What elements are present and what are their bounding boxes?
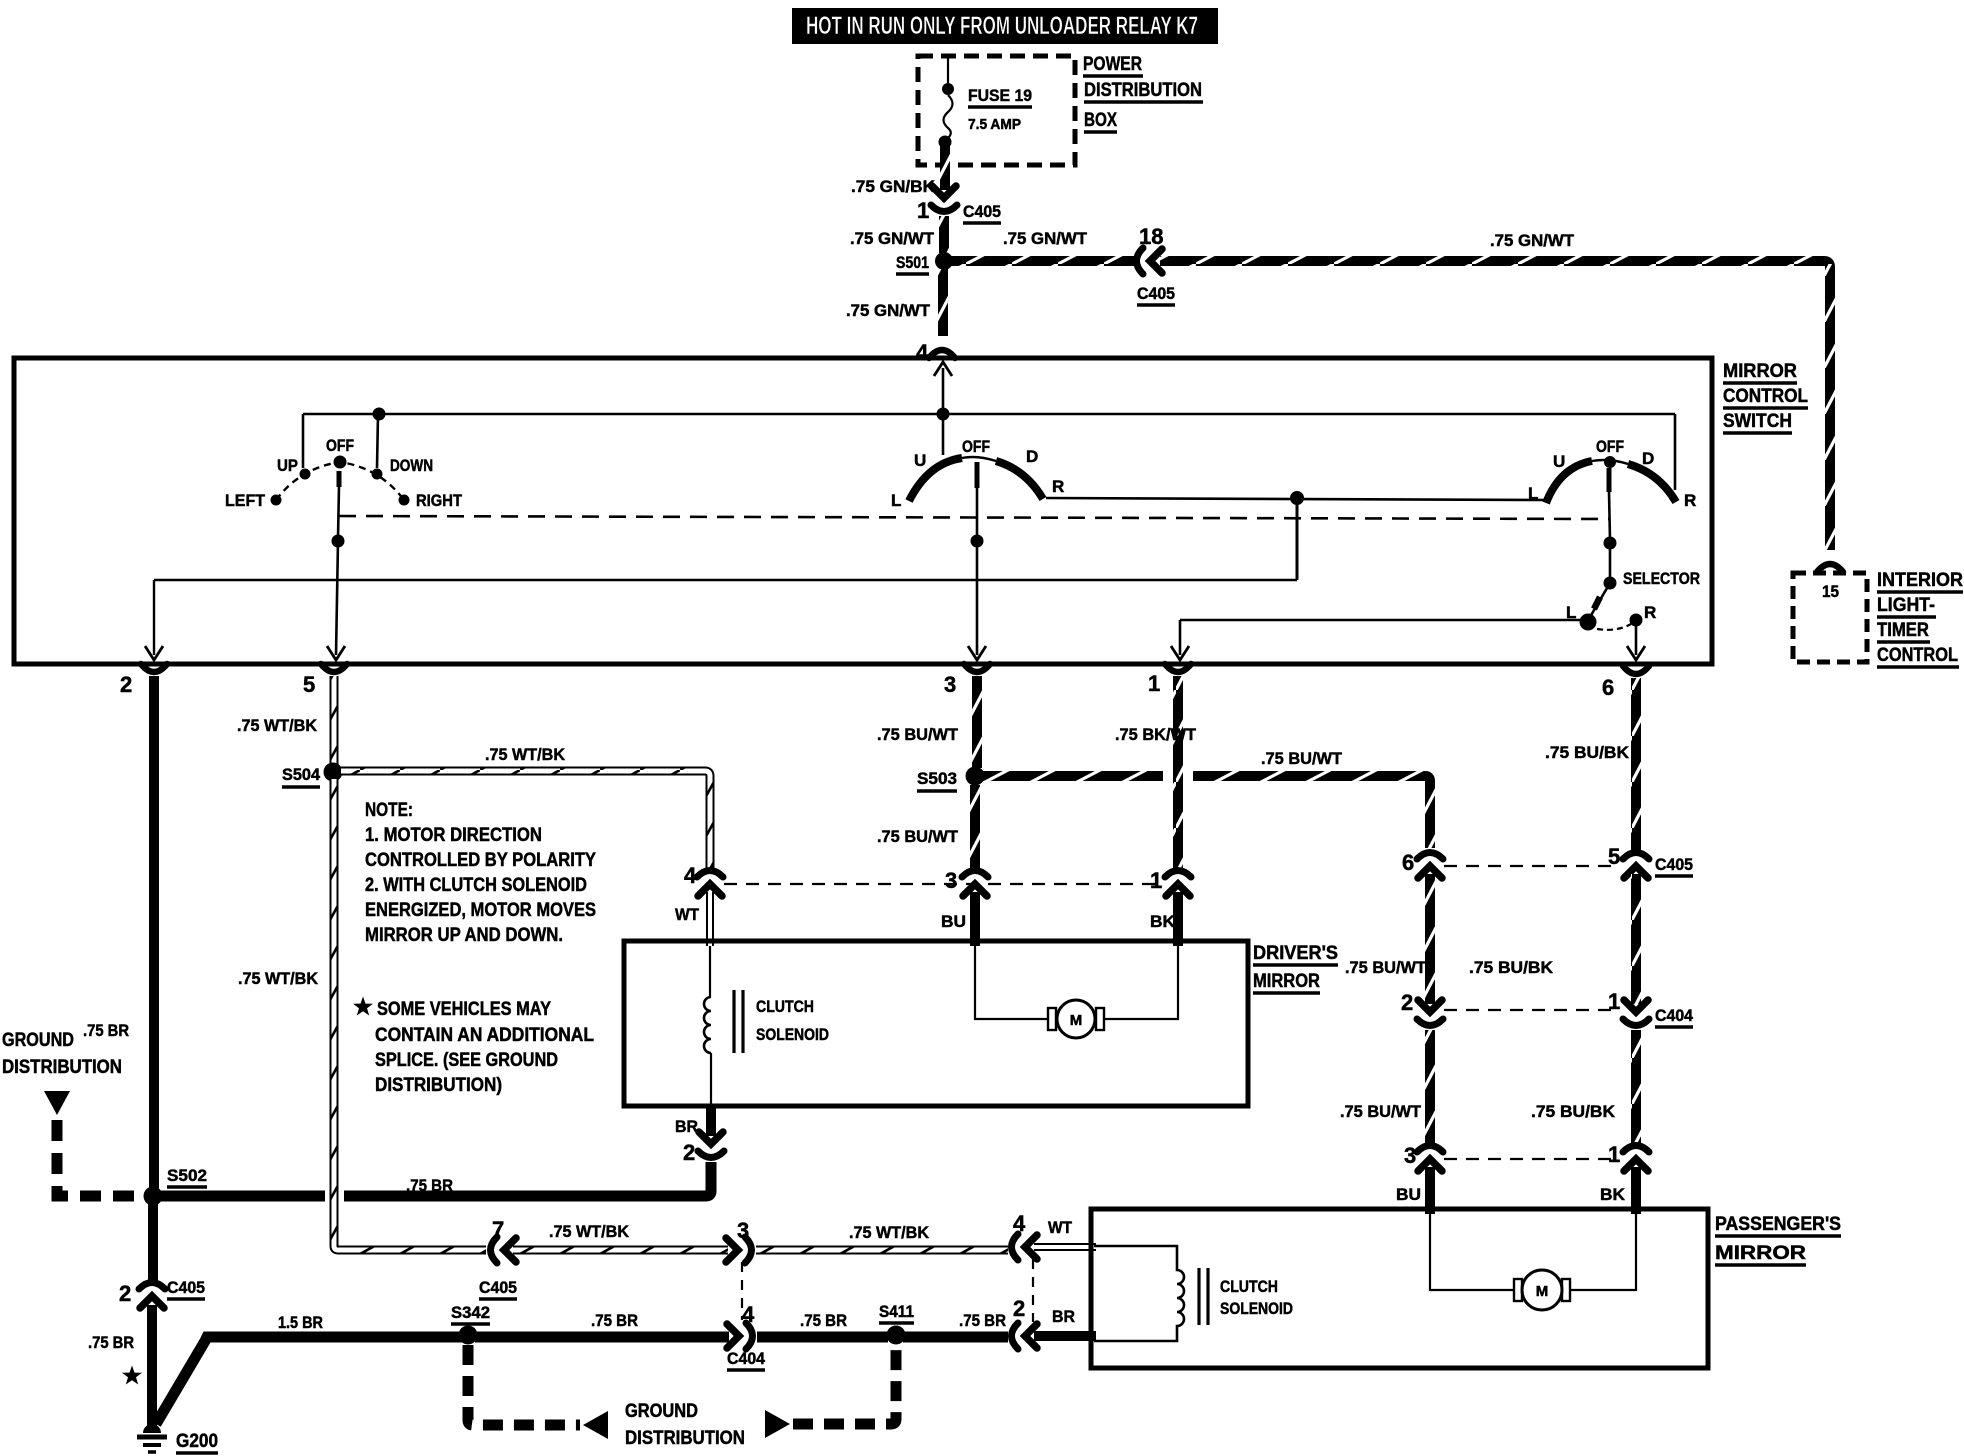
ground G200 bbox=[137, 1424, 167, 1452]
right switch thick arc D-R bbox=[1628, 464, 1676, 502]
svg-text:.75 WT/BK: .75 WT/BK bbox=[237, 716, 318, 735]
wire pin4 internal lead bbox=[942, 368, 945, 414]
svg-text:CONTROL: CONTROL bbox=[1723, 386, 1808, 407]
label POWER DISTRIBUTION BOX bbox=[1083, 54, 1203, 132]
svg-text:C405: C405 bbox=[167, 1278, 205, 1297]
middle switch thick arc L-U-OFF bbox=[909, 458, 962, 501]
svg-text:POWER: POWER bbox=[1083, 54, 1142, 75]
label S342 bbox=[451, 1303, 490, 1324]
wire .75 WT/BK C404-3 to connector 4 (hollow) bbox=[756, 1246, 1008, 1255]
svg-text:DISTRIBUTION: DISTRIBUTION bbox=[625, 1428, 745, 1449]
svg-text:TIMER: TIMER bbox=[1877, 620, 1929, 641]
label C405 bbox=[963, 202, 1001, 223]
wire stem lower bbox=[1609, 543, 1612, 583]
ground distribution arrow (right) bbox=[765, 1410, 790, 1438]
wire BR driver mirror down bbox=[706, 1106, 716, 1136]
svg-text:PASSENGER'S: PASSENGER'S bbox=[1715, 1214, 1841, 1235]
svg-text:CONTROLLED BY POLARITY: CONTROLLED BY POLARITY bbox=[365, 850, 596, 871]
svg-text:BOX: BOX bbox=[1084, 110, 1117, 131]
svg-text:BK: BK bbox=[1150, 912, 1176, 931]
svg-text:CONTROL: CONTROL bbox=[1877, 645, 1958, 666]
splice S503 bbox=[966, 767, 985, 786]
connector C404 pin 1 (arrow down) bbox=[1623, 1000, 1649, 1026]
svg-text:.75 BU/BK: .75 BU/BK bbox=[1531, 1102, 1616, 1121]
svg-text:4: 4 bbox=[916, 340, 929, 365]
ground distribution arrow (down) bbox=[44, 1091, 70, 1115]
wire selector R to pin 6 bbox=[1635, 626, 1638, 655]
arrowhead down at pin 5 bbox=[327, 646, 345, 660]
connector 1 (mirror plug, arrow up) bbox=[1165, 871, 1191, 897]
label S502 bbox=[167, 1166, 207, 1187]
svg-text:SOME VEHICLES MAY: SOME VEHICLES MAY bbox=[377, 999, 551, 1020]
dashed wire S411 to ground distribution bbox=[793, 1345, 896, 1424]
wire internal top bus bbox=[303, 413, 1675, 416]
wire corner down to R contact (right switch) bbox=[1674, 414, 1677, 490]
svg-text:1: 1 bbox=[1608, 989, 1620, 1014]
label GROUND DISTRIBUTION (bottom) bbox=[625, 1401, 745, 1449]
left switch pole stem bbox=[338, 471, 339, 538]
svg-text:6: 6 bbox=[1402, 850, 1414, 875]
svg-text:DISTRIBUTION: DISTRIBUTION bbox=[2, 1057, 122, 1078]
label GROUND DISTRIBUTION (upper left) bbox=[2, 1030, 122, 1078]
svg-text:OFF: OFF bbox=[962, 437, 990, 456]
contact DOWN bbox=[372, 469, 383, 480]
svg-text:OFF: OFF bbox=[326, 436, 354, 455]
svg-text:C405: C405 bbox=[1655, 855, 1693, 874]
pin 3 fork bbox=[964, 664, 990, 672]
svg-text:3: 3 bbox=[945, 868, 957, 893]
svg-text:S342: S342 bbox=[451, 1303, 490, 1322]
svg-text:1: 1 bbox=[917, 198, 929, 223]
node on stem bbox=[332, 535, 345, 548]
wire corner down to UP contact bbox=[302, 414, 305, 468]
svg-text:S503: S503 bbox=[917, 769, 957, 788]
label S411 bbox=[879, 1302, 914, 1323]
star (additional splice mark) bbox=[122, 1366, 142, 1385]
svg-text:BR: BR bbox=[675, 1117, 698, 1136]
connector C404 pin 2 (arrow down) bbox=[1417, 1000, 1443, 1026]
svg-text:S504: S504 bbox=[282, 765, 321, 784]
svg-text:MIRROR: MIRROR bbox=[1715, 1243, 1806, 1264]
svg-text:SELECTOR: SELECTOR bbox=[1623, 569, 1700, 588]
connector C404 pin 3 (arrow right) bbox=[726, 1237, 752, 1263]
wire .75 BR S342 to C404-4 bbox=[475, 1332, 729, 1343]
svg-text:MIRROR UP AND DOWN.: MIRROR UP AND DOWN. bbox=[365, 925, 563, 946]
dashed connector line C404 2-1 bbox=[1444, 1009, 1620, 1011]
wire 1.5 BR to S342 bbox=[460, 1332, 462, 1343]
svg-text:.75 BK/WT: .75 BK/WT bbox=[1115, 725, 1197, 744]
dashed wire ground distribution to S502 bbox=[57, 1120, 144, 1196]
svg-text:UP: UP bbox=[277, 456, 298, 475]
svg-text:U: U bbox=[1553, 452, 1565, 471]
wire WT lead inside driver mirror bbox=[709, 946, 711, 997]
svg-text:LEFT: LEFT bbox=[225, 491, 266, 510]
svg-text:L: L bbox=[1528, 484, 1538, 503]
svg-text:ENERGIZED, MOTOR MOVES: ENERGIZED, MOTOR MOVES bbox=[365, 900, 596, 921]
label C404 bbox=[727, 1349, 766, 1370]
svg-text:5: 5 bbox=[303, 672, 315, 697]
svg-text:.75 BU/WT: .75 BU/WT bbox=[1340, 1102, 1422, 1121]
svg-text:DISTRIBUTION: DISTRIBUTION bbox=[1084, 80, 1202, 101]
svg-text:R: R bbox=[1644, 603, 1656, 622]
pin 4 fork at switch box bbox=[929, 350, 955, 358]
contact OFF (right switch) bbox=[1604, 456, 1616, 468]
svg-text:.75 GN/WT: .75 GN/WT bbox=[846, 301, 931, 320]
svg-text:BR: BR bbox=[1052, 1307, 1075, 1326]
svg-text:SWITCH: SWITCH bbox=[1723, 411, 1792, 432]
svg-text:.75 GN/WT: .75 GN/WT bbox=[850, 229, 935, 248]
label CLUTCH SOLENOID (passenger) bbox=[1220, 1277, 1293, 1318]
svg-text:R: R bbox=[1684, 491, 1696, 510]
wire BK connector to driver mirror bbox=[1173, 892, 1183, 946]
svg-text:MIRROR: MIRROR bbox=[1253, 971, 1320, 992]
middle switch pole stem bbox=[975, 462, 980, 538]
svg-text:FUSE 19: FUSE 19 bbox=[968, 86, 1032, 105]
dashed line connector 4 to 2 bbox=[1032, 1259, 1034, 1322]
connector C405 pin 18 (inline) bbox=[1137, 248, 1163, 274]
wire .75 BU/WT S503 down to connector 3 bbox=[970, 785, 980, 868]
svg-text:CONTAIN AN ADDITIONAL: CONTAIN AN ADDITIONAL bbox=[375, 1025, 594, 1046]
svg-text:.75 BR: .75 BR bbox=[406, 1176, 453, 1195]
contact RIGHT bbox=[399, 495, 410, 506]
wire WT connector to driver mirror (hollow) bbox=[706, 892, 714, 946]
node on stem bbox=[971, 535, 984, 548]
wire .75 BR S502 to C405-2 bbox=[148, 1200, 158, 1280]
connector C405 pin 1 (inline) bbox=[931, 186, 957, 212]
arrowhead down at pin 2 bbox=[145, 646, 163, 660]
connector 2 driver mirror (arrow down) bbox=[698, 1132, 724, 1158]
svg-text:DISTRIBUTION): DISTRIBUTION) bbox=[375, 1075, 502, 1096]
svg-text:3: 3 bbox=[1404, 1143, 1416, 1168]
fuse F19 top node bbox=[942, 83, 954, 95]
contact LEFT bbox=[271, 495, 282, 506]
svg-text:2. WITH CLUTCH SOLENOID: 2. WITH CLUTCH SOLENOID bbox=[365, 875, 587, 896]
label CLUTCH SOLENOID (driver) bbox=[756, 997, 829, 1044]
svg-text:.75 GN/WT: .75 GN/WT bbox=[1003, 229, 1088, 248]
connector 2 passenger mirror (arrow left) bbox=[1012, 1323, 1038, 1349]
svg-text:S502: S502 bbox=[167, 1166, 207, 1185]
svg-text:1. MOTOR DIRECTION: 1. MOTOR DIRECTION bbox=[365, 825, 542, 846]
svg-text:SOLENOID: SOLENOID bbox=[1220, 1299, 1293, 1318]
wire .75 GN/WT S501 to C405-18 (horizontal) bbox=[951, 256, 1134, 266]
svg-text:C404: C404 bbox=[1655, 1006, 1694, 1025]
svg-text:DRIVER'S: DRIVER'S bbox=[1253, 943, 1338, 964]
svg-text:LIGHT-: LIGHT- bbox=[1877, 595, 1935, 616]
connector C405 pin 6 (arrow up) bbox=[1417, 853, 1443, 879]
node selector pivot bbox=[1604, 577, 1617, 590]
splice S504 bbox=[324, 763, 343, 782]
svg-text:WT: WT bbox=[1048, 1218, 1073, 1237]
pin 2 fork bbox=[141, 664, 167, 672]
label C404 bbox=[1655, 1006, 1694, 1027]
wire .75 WT/BK S504 to connector 4 (hollow, right then down) bbox=[341, 771, 710, 868]
svg-text:15: 15 bbox=[1822, 582, 1839, 601]
svg-text:G200: G200 bbox=[176, 1431, 218, 1452]
mirror control switch box bbox=[14, 358, 1712, 664]
label G200 bbox=[176, 1431, 218, 1453]
contact UP bbox=[300, 469, 311, 480]
svg-text:BK: BK bbox=[1600, 1185, 1626, 1204]
splice S411 bbox=[887, 1326, 906, 1345]
connector 3 (mirror plug, arrow up) bbox=[962, 871, 988, 897]
node junction on R-L wire bbox=[1290, 491, 1304, 505]
svg-text:INTERIOR: INTERIOR bbox=[1877, 570, 1963, 591]
svg-text:L: L bbox=[891, 491, 901, 510]
dashed selector arc bbox=[1597, 624, 1631, 630]
middle switch thick arc D-R bbox=[996, 461, 1043, 499]
wire .75 BU/BK C405-5 to C404-1 bbox=[1631, 874, 1641, 1004]
motor circuit wires (passenger) bbox=[1430, 1214, 1520, 1290]
svg-text:2: 2 bbox=[120, 672, 132, 697]
fuse F19 element bbox=[944, 95, 953, 139]
label C405 bbox=[1137, 284, 1175, 305]
wire .75 BU/BK pin 6 down to C405-5 bbox=[1631, 678, 1641, 850]
left switch dashed arc bbox=[276, 462, 404, 500]
svg-text:1: 1 bbox=[1608, 1142, 1620, 1167]
svg-text:C405: C405 bbox=[1137, 284, 1175, 303]
connector C405 pin 5 (arrow up) bbox=[1623, 853, 1649, 879]
wire pin 1 internal lead bbox=[1180, 620, 1588, 655]
pin 5 fork bbox=[321, 664, 347, 672]
svg-text:SOLENOID: SOLENOID bbox=[756, 1025, 829, 1044]
wire down to DOWN contact bbox=[377, 414, 378, 468]
svg-text:D: D bbox=[1642, 449, 1654, 468]
wire .75 WT/BK bottom run (hollow) bbox=[334, 1246, 486, 1250]
svg-text:1: 1 bbox=[1150, 868, 1162, 893]
wire BR connector to S502 run bbox=[344, 1162, 711, 1196]
svg-text:S501: S501 bbox=[896, 253, 929, 272]
svg-text:.75 BU/BK: .75 BU/BK bbox=[1469, 958, 1554, 977]
svg-text:.75 BU/WT: .75 BU/WT bbox=[877, 725, 959, 744]
splice S502 bbox=[144, 1187, 163, 1206]
connector 4 (mirror plug, arrow up) bbox=[697, 871, 723, 897]
power distribution box (dashed) bbox=[918, 56, 1075, 165]
wire BU connector to driver mirror bbox=[970, 892, 980, 946]
svg-text:1: 1 bbox=[1148, 671, 1160, 696]
splice S501 bbox=[935, 252, 953, 270]
ground distribution arrow (left) bbox=[583, 1411, 608, 1439]
wire R contact to right switch L contact bbox=[1046, 498, 1546, 500]
label MIRROR CONTROL SWITCH bbox=[1723, 361, 1808, 433]
svg-text:GROUND: GROUND bbox=[625, 1401, 698, 1422]
dashed line C404 3 to 4 bbox=[741, 1262, 743, 1320]
svg-text:.75 BU/WT: .75 BU/WT bbox=[1261, 749, 1343, 768]
svg-text:.75 BR: .75 BR bbox=[800, 1311, 847, 1330]
svg-text:.75 WT/BK: .75 WT/BK bbox=[849, 1223, 930, 1242]
connector C405 pin 7 (arrow left) bbox=[491, 1237, 517, 1263]
selector arm bbox=[1590, 583, 1610, 617]
dashed connector line C405 6-5 bbox=[1444, 865, 1620, 867]
connector 3 passenger mirror plug (arrow up) bbox=[1417, 1146, 1443, 1172]
wire WT into passenger mirror (hollow) bbox=[1034, 1243, 1096, 1251]
svg-text:7: 7 bbox=[492, 1217, 504, 1242]
svg-text:C405: C405 bbox=[963, 202, 1001, 221]
wire down to U contact bbox=[942, 414, 945, 455]
svg-text:.75 WT/BK: .75 WT/BK bbox=[485, 745, 566, 764]
svg-text:.75 BU/WT: .75 BU/WT bbox=[877, 827, 959, 846]
svg-text:.75 BR: .75 BR bbox=[83, 1021, 129, 1040]
banner HOT IN RUN ONLY FROM UNLOADER RELAY K7 bbox=[792, 8, 1218, 44]
wire .75 GN/WT C405-18 to interior light timer (long run right and down) bbox=[1160, 261, 1830, 550]
svg-text:SPLICE. (SEE GROUND: SPLICE. (SEE GROUND bbox=[375, 1050, 558, 1071]
note text block bbox=[365, 800, 596, 946]
dashed mechanical linkage line bbox=[339, 516, 1609, 519]
svg-text:.75 GN/WT: .75 GN/WT bbox=[1490, 231, 1575, 250]
svg-text:GROUND: GROUND bbox=[2, 1030, 74, 1051]
svg-text:C405: C405 bbox=[479, 1278, 517, 1297]
wire .75 BR S411 to connector 2 bbox=[903, 1332, 1008, 1343]
label S503 bbox=[917, 769, 957, 791]
svg-text:WT: WT bbox=[675, 905, 700, 924]
fuse F19 lead wire bbox=[947, 58, 949, 84]
wire BU into passenger mirror bbox=[1425, 1167, 1435, 1214]
wire 1.5 BR diagonal from G200 junction bbox=[156, 1337, 461, 1424]
svg-text:4: 4 bbox=[684, 863, 697, 888]
node junction above DOWN bbox=[373, 408, 386, 421]
svg-text:.75 BR: .75 BR bbox=[88, 1333, 134, 1352]
svg-text:2: 2 bbox=[1013, 1296, 1025, 1321]
wire BR into passenger mirror bbox=[1034, 1331, 1096, 1341]
pin 6 fork bbox=[1623, 666, 1649, 674]
wire .75 BR C405-2 to G200 bbox=[147, 1305, 157, 1430]
wire .75 WT/BK C405-7 to C404-3 (hollow) bbox=[513, 1246, 728, 1255]
dashed connector line 3-1 bbox=[1444, 1158, 1620, 1160]
svg-text:MIRROR: MIRROR bbox=[1723, 361, 1797, 382]
clutch solenoid frame (passenger) bbox=[1094, 1246, 1184, 1341]
passenger's mirror box bbox=[1091, 1209, 1708, 1368]
svg-text:U: U bbox=[914, 451, 926, 470]
connector 1 passenger mirror plug (arrow up) bbox=[1623, 1146, 1649, 1172]
wire .75 BR C404-4 to S411 bbox=[757, 1332, 888, 1343]
wire stem to pin 3 bbox=[976, 541, 979, 655]
wire .75 BU/BK C404-1 to mirror connector 1 bbox=[1631, 1030, 1641, 1143]
wire .75 GN/WT C405 to S501 bbox=[939, 216, 949, 253]
clutch solenoid coil (driver) bbox=[704, 997, 711, 1053]
arrowhead down at pin 3 bbox=[968, 646, 986, 660]
node on stem bbox=[1604, 537, 1617, 550]
middle switch thin arc at OFF bbox=[962, 457, 996, 461]
svg-text:2: 2 bbox=[683, 1140, 695, 1165]
label PASSENGER'S MIRROR bbox=[1715, 1214, 1841, 1265]
wire coil to BR pin bbox=[710, 1053, 712, 1104]
label S501 bbox=[896, 253, 929, 274]
label C405 bbox=[167, 1278, 205, 1299]
label C405 bbox=[479, 1278, 517, 1299]
svg-text:7.5 AMP: 7.5 AMP bbox=[968, 116, 1021, 133]
wire .75 WT/BK pin 5 down to S504 (hollow) bbox=[330, 676, 339, 766]
wire .75 GN/BK from fuse to C405 bbox=[940, 140, 950, 190]
connector C404 pin 4 (arrow right) bbox=[727, 1323, 753, 1349]
wire .75 BK/WT pin 1 to connector 1 bbox=[1173, 676, 1183, 868]
svg-text:CLUTCH: CLUTCH bbox=[1220, 1277, 1278, 1296]
svg-text:2: 2 bbox=[1401, 990, 1413, 1015]
pin fork at interior light timer bbox=[1817, 564, 1843, 572]
svg-text:4: 4 bbox=[742, 1302, 755, 1327]
svg-text:C404: C404 bbox=[727, 1349, 766, 1368]
wire .75 BR pin 2 down to S502 bbox=[149, 676, 159, 1190]
wire lower bus to pin 2 bbox=[154, 579, 1297, 581]
wire stem to pin 5 bbox=[336, 541, 338, 655]
wire .75 BU/WT S503 horizontal to right column bbox=[983, 776, 1430, 848]
interior light-timer control box (dashed) bbox=[1793, 573, 1867, 662]
splice S342 bbox=[459, 1326, 478, 1345]
contact selector R bbox=[1630, 614, 1643, 627]
svg-text:3: 3 bbox=[737, 1218, 749, 1243]
svg-text:.75 BR: .75 BR bbox=[959, 1311, 1006, 1330]
label S504 bbox=[282, 765, 321, 787]
svg-text:HOT IN RUN ONLY FROM UNLOADER: HOT IN RUN ONLY FROM UNLOADER RELAY K7 bbox=[806, 12, 1198, 40]
svg-text:D: D bbox=[1026, 447, 1038, 466]
right switch thin arc at OFF bbox=[1592, 460, 1628, 464]
wire down to pin 2 bbox=[153, 580, 155, 655]
label DRIVER'S MIRROR bbox=[1253, 943, 1338, 993]
svg-text:.75 BU/WT: .75 BU/WT bbox=[1345, 958, 1427, 977]
wire junction down bbox=[1296, 498, 1299, 580]
connector 4 passenger mirror (arrow left) bbox=[1012, 1234, 1038, 1260]
svg-text:BU: BU bbox=[1396, 1185, 1421, 1204]
svg-text:RIGHT: RIGHT bbox=[416, 491, 463, 510]
motor M (passenger) bbox=[1514, 1270, 1570, 1310]
pin 1 fork bbox=[1165, 664, 1191, 672]
contact selector L bbox=[1580, 614, 1597, 631]
wire .75 BU/WT C405-6 to C404-2 bbox=[1425, 874, 1435, 1004]
svg-text:3: 3 bbox=[944, 672, 956, 697]
right switch pole stem bbox=[1609, 468, 1610, 540]
svg-text:DOWN: DOWN bbox=[390, 456, 433, 475]
right switch thick arc L-U bbox=[1546, 461, 1592, 503]
svg-text:6: 6 bbox=[1602, 675, 1614, 700]
svg-text:M: M bbox=[1070, 1012, 1083, 1029]
node junction above U (middle switch) bbox=[937, 408, 950, 421]
svg-text:.75 BU/BK: .75 BU/BK bbox=[1545, 743, 1630, 762]
svg-text:1.5 BR: 1.5 BR bbox=[278, 1313, 323, 1332]
svg-text:.75 WT/BK: .75 WT/BK bbox=[549, 1222, 630, 1241]
svg-text:OFF: OFF bbox=[1596, 437, 1624, 456]
motor M (driver) bbox=[1048, 1000, 1104, 1038]
wire .75 BU/WT pin 3 to S503 bbox=[972, 676, 982, 768]
connector C405 pin 2 (inline, arrow up) bbox=[139, 1283, 165, 1309]
arrowhead down at pin 1 bbox=[1171, 646, 1189, 660]
svg-text:18: 18 bbox=[1139, 224, 1163, 249]
svg-text:M: M bbox=[1536, 1283, 1549, 1300]
driver's mirror box bbox=[624, 941, 1248, 1106]
fuse F19 bottom node bbox=[939, 136, 952, 149]
svg-text:5: 5 bbox=[1608, 844, 1620, 869]
motor circuit wires (driver) bbox=[975, 946, 1054, 1019]
wire BK into passenger mirror bbox=[1631, 1167, 1641, 1214]
svg-text:R: R bbox=[1052, 477, 1064, 496]
svg-text:4: 4 bbox=[1013, 1211, 1026, 1236]
label FUSE 19 bbox=[968, 86, 1032, 133]
svg-text:.75 WT/BK: .75 WT/BK bbox=[238, 969, 319, 988]
solenoid core (passenger) bbox=[1199, 1268, 1208, 1325]
svg-text:2: 2 bbox=[119, 1281, 131, 1306]
arrowhead down at pin 6 bbox=[1627, 646, 1645, 660]
svg-text:NOTE:: NOTE: bbox=[365, 800, 413, 821]
wire .75 WT/BK S504 down (hollow) bbox=[330, 779, 339, 1246]
arrowhead up at pin 4 bbox=[934, 362, 952, 376]
label INTERIOR LIGHT-TIMER CONTROL bbox=[1877, 570, 1963, 667]
wire .75 GN/WT S501 down to switch pin 4 bbox=[938, 269, 948, 336]
svg-text:.75 BR: .75 BR bbox=[591, 1311, 638, 1330]
label C405 bbox=[1655, 855, 1693, 876]
wire .75 BU/WT C404-2 to mirror connector 3 bbox=[1425, 1030, 1435, 1143]
contact OFF (left switch) bbox=[334, 456, 347, 469]
svg-text:BU: BU bbox=[941, 912, 966, 931]
svg-text:.75 GN/BK: .75 GN/BK bbox=[851, 177, 936, 196]
svg-text:CLUTCH: CLUTCH bbox=[756, 997, 814, 1016]
note star text block bbox=[353, 997, 594, 1097]
